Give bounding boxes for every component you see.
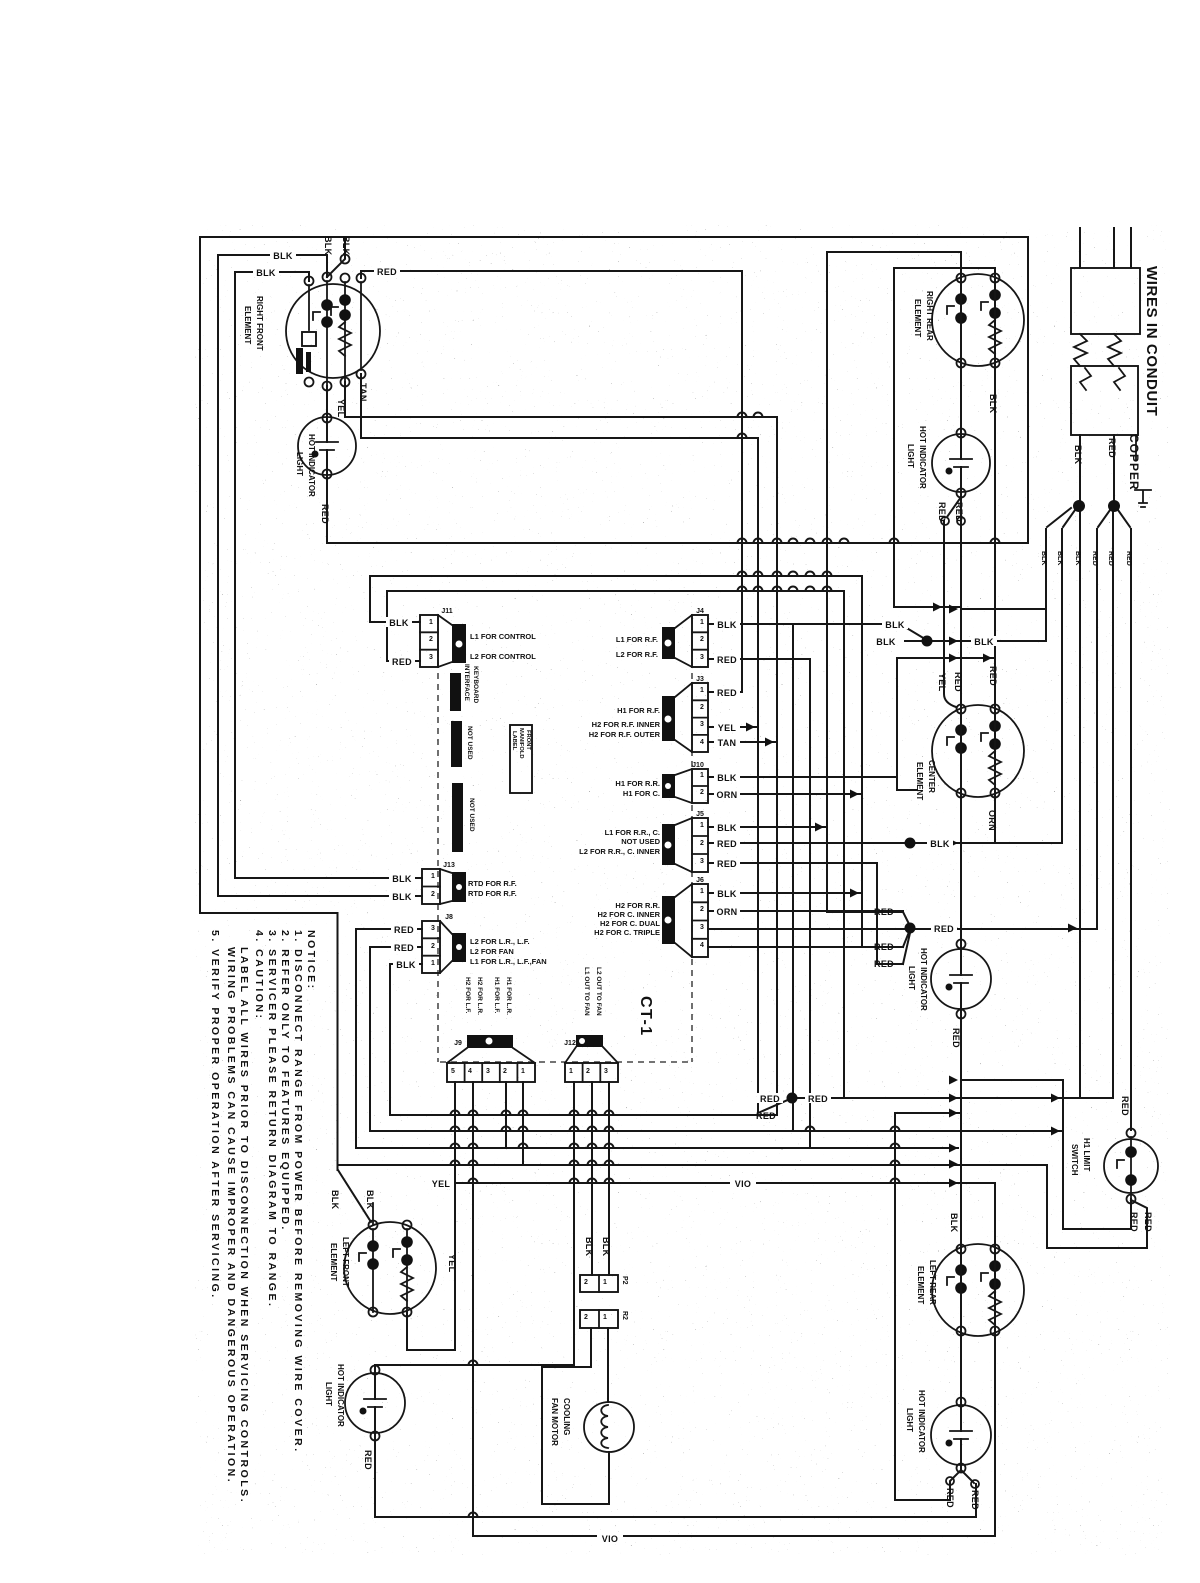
svg-text:RIGHT REAR: RIGHT REAR bbox=[925, 291, 934, 341]
svg-text:YEL: YEL bbox=[432, 1179, 451, 1189]
svg-text:KEYBOARD: KEYBOARD bbox=[472, 666, 479, 704]
svg-text:2: 2 bbox=[700, 789, 704, 796]
svg-text:H2 FOR C. INNER: H2 FOR C. INNER bbox=[597, 910, 660, 919]
svg-text:YEL: YEL bbox=[447, 1254, 457, 1273]
svg-text:BLK: BLK bbox=[601, 1237, 611, 1257]
svg-text:BLK: BLK bbox=[256, 268, 276, 278]
svg-text:RED: RED bbox=[392, 657, 412, 667]
svg-text:H2 FOR L.F.: H2 FOR L.F. bbox=[464, 977, 471, 1014]
svg-text:3: 3 bbox=[700, 654, 704, 661]
svg-text:RED: RED bbox=[363, 1450, 373, 1470]
svg-text:BLK: BLK bbox=[341, 236, 351, 256]
svg-text:RED: RED bbox=[1125, 551, 1132, 566]
svg-text:H2 FOR L.R.: H2 FOR L.R. bbox=[476, 977, 483, 1015]
svg-text:L1 FOR R.R., C.: L1 FOR R.R., C. bbox=[605, 828, 660, 837]
svg-text:ELEMENT: ELEMENT bbox=[915, 762, 924, 800]
svg-text:RED: RED bbox=[717, 859, 737, 869]
svg-text:SWITCH: SWITCH bbox=[1070, 1144, 1079, 1176]
svg-text:RED: RED bbox=[945, 1488, 955, 1508]
svg-text:YEL: YEL bbox=[937, 673, 947, 692]
svg-text:2: 2 bbox=[431, 891, 435, 898]
svg-text:2: 2 bbox=[700, 636, 704, 643]
svg-text:BLK: BLK bbox=[396, 960, 416, 970]
svg-text:ORN: ORN bbox=[987, 810, 997, 831]
svg-text:1: 1 bbox=[603, 1279, 607, 1286]
svg-text:RED: RED bbox=[954, 502, 964, 522]
svg-text:L1 FOR CONTROL: L1 FOR CONTROL bbox=[470, 632, 536, 641]
svg-text:RED: RED bbox=[988, 666, 998, 686]
svg-text:L2 FOR CONTROL: L2 FOR CONTROL bbox=[470, 652, 536, 661]
svg-text:RED: RED bbox=[874, 959, 894, 969]
svg-text:1: 1 bbox=[431, 873, 435, 880]
svg-text:LIGHT: LIGHT bbox=[907, 966, 916, 990]
svg-text:L2 FOR R.F.: L2 FOR R.F. bbox=[616, 650, 658, 659]
svg-text:BLK: BLK bbox=[1074, 551, 1081, 565]
svg-text:BLK: BLK bbox=[330, 1190, 340, 1210]
svg-text:L2 FOR FAN: L2 FOR FAN bbox=[470, 947, 514, 956]
svg-text:BLK: BLK bbox=[1040, 551, 1047, 565]
svg-text:RED: RED bbox=[394, 943, 414, 953]
svg-text:3. SERVICER PLEASE RETURN DIAG: 3. SERVICER PLEASE RETURN DIAGRAM TO RAN… bbox=[266, 930, 278, 1308]
svg-text:RED: RED bbox=[717, 688, 737, 698]
svg-text:2: 2 bbox=[586, 1068, 590, 1075]
svg-text:L2 FOR L.R., L.F.: L2 FOR L.R., L.F. bbox=[470, 937, 530, 946]
svg-text:RED: RED bbox=[756, 1111, 776, 1121]
svg-text:H1 FOR L.F.: H1 FOR L.F. bbox=[493, 977, 500, 1014]
svg-text:H1 LIMIT: H1 LIMIT bbox=[1082, 1138, 1091, 1171]
svg-text:BLK: BLK bbox=[717, 889, 737, 899]
svg-text:YEL: YEL bbox=[336, 399, 346, 418]
svg-text:RED: RED bbox=[717, 839, 737, 849]
svg-text:HOT INDICATOR: HOT INDICATOR bbox=[919, 948, 928, 1011]
svg-text:2: 2 bbox=[584, 1314, 588, 1321]
svg-text:RED: RED bbox=[1143, 1212, 1153, 1232]
svg-text:HOT INDICATOR: HOT INDICATOR bbox=[336, 1364, 345, 1427]
svg-text:3: 3 bbox=[604, 1068, 608, 1075]
svg-text:RTD FOR R.F.: RTD FOR R.F. bbox=[468, 889, 517, 898]
svg-text:FRONT: FRONT bbox=[525, 730, 531, 750]
svg-text:1: 1 bbox=[569, 1068, 573, 1075]
svg-text:RED: RED bbox=[970, 1490, 980, 1510]
svg-text:ELEMENT: ELEMENT bbox=[913, 299, 922, 337]
svg-text:H1 FOR R.R.: H1 FOR R.R. bbox=[615, 779, 660, 788]
svg-text:2: 2 bbox=[700, 906, 704, 913]
svg-text:VIO: VIO bbox=[602, 1534, 618, 1544]
svg-text:BLK: BLK bbox=[988, 394, 998, 414]
svg-text:RED: RED bbox=[1107, 551, 1114, 566]
svg-text:4. CAUTION:: 4. CAUTION: bbox=[253, 930, 265, 1021]
svg-text:TAN: TAN bbox=[358, 383, 368, 402]
svg-text:3: 3 bbox=[486, 1068, 490, 1075]
svg-text:WIRES IN CONDUIT: WIRES IN CONDUIT bbox=[1143, 266, 1160, 416]
svg-text:RED: RED bbox=[953, 672, 963, 692]
svg-text:L2 OUT TO FAN: L2 OUT TO FAN bbox=[595, 967, 602, 1016]
svg-text:BLK: BLK bbox=[584, 1237, 594, 1257]
svg-text:RED: RED bbox=[1091, 551, 1098, 566]
svg-text:RED: RED bbox=[1107, 438, 1117, 458]
svg-text:LIGHT: LIGHT bbox=[906, 444, 915, 468]
svg-text:H2 FOR R.F. INNER: H2 FOR R.F. INNER bbox=[592, 720, 661, 729]
svg-text:BLK: BLK bbox=[392, 874, 412, 884]
svg-text:BLK: BLK bbox=[949, 1213, 959, 1233]
svg-text:5: 5 bbox=[451, 1068, 455, 1075]
svg-text:J5: J5 bbox=[696, 811, 704, 818]
svg-text:RED: RED bbox=[874, 942, 894, 952]
svg-text:1: 1 bbox=[700, 687, 704, 694]
svg-text:3: 3 bbox=[700, 721, 704, 728]
svg-text:RED: RED bbox=[717, 655, 737, 665]
svg-text:LIGHT: LIGHT bbox=[295, 452, 304, 476]
svg-text:J3: J3 bbox=[696, 676, 704, 683]
svg-text:RED: RED bbox=[377, 267, 397, 277]
svg-text:RED: RED bbox=[874, 907, 894, 917]
svg-text:FAN MOTOR: FAN MOTOR bbox=[550, 1398, 559, 1446]
svg-text:1: 1 bbox=[700, 619, 704, 626]
svg-text:1: 1 bbox=[700, 888, 704, 895]
svg-text:RIGHT FRONT: RIGHT FRONT bbox=[255, 296, 264, 351]
svg-text:BLK: BLK bbox=[885, 620, 905, 630]
svg-text:NOT USED: NOT USED bbox=[621, 837, 660, 846]
svg-text:RED: RED bbox=[937, 502, 947, 522]
svg-text:BLK: BLK bbox=[1073, 445, 1083, 465]
svg-text:LIGHT: LIGHT bbox=[324, 1382, 333, 1406]
svg-text:COOLING: COOLING bbox=[562, 1398, 571, 1435]
svg-text:J12: J12 bbox=[564, 1040, 576, 1047]
svg-text:H1 FOR L.R.: H1 FOR L.R. bbox=[505, 977, 512, 1015]
svg-text:ORN: ORN bbox=[717, 907, 738, 917]
svg-text:BLK: BLK bbox=[392, 892, 412, 902]
svg-text:RED: RED bbox=[394, 925, 414, 935]
svg-text:H2 FOR R.F. OUTER: H2 FOR R.F. OUTER bbox=[589, 730, 661, 739]
svg-text:2: 2 bbox=[700, 840, 704, 847]
svg-text:BLK: BLK bbox=[717, 620, 737, 630]
svg-text:RED: RED bbox=[1120, 1096, 1130, 1116]
svg-text:2: 2 bbox=[431, 943, 435, 950]
svg-text:BLK: BLK bbox=[365, 1190, 375, 1210]
svg-text:RED: RED bbox=[934, 924, 954, 934]
svg-text:P2: P2 bbox=[621, 1276, 628, 1285]
svg-text:2: 2 bbox=[700, 704, 704, 711]
svg-text:L1 OUT TO FAN: L1 OUT TO FAN bbox=[583, 967, 590, 1016]
svg-text:HOT INDICATOR: HOT INDICATOR bbox=[307, 434, 316, 497]
svg-text:1: 1 bbox=[431, 960, 435, 967]
svg-text:BLK: BLK bbox=[1056, 551, 1063, 565]
svg-text:BLK: BLK bbox=[876, 637, 896, 647]
svg-text:BLK: BLK bbox=[389, 618, 409, 628]
svg-text:1: 1 bbox=[700, 822, 704, 829]
svg-text:4: 4 bbox=[700, 942, 704, 949]
svg-text:NOT USED: NOT USED bbox=[468, 798, 475, 832]
svg-text:BLK: BLK bbox=[930, 839, 950, 849]
svg-text:3: 3 bbox=[429, 654, 433, 661]
svg-text:WIRING PROBLEMS CAN CAUSE IMPR: WIRING PROBLEMS CAN CAUSE IMPROPER AND D… bbox=[225, 947, 237, 1484]
svg-text:TAN: TAN bbox=[718, 738, 737, 748]
svg-text:1: 1 bbox=[603, 1314, 607, 1321]
svg-text:LIGHT: LIGHT bbox=[905, 1408, 914, 1432]
svg-text:L2 FOR R.R., C. INNER: L2 FOR R.R., C. INNER bbox=[579, 847, 660, 856]
svg-text:CT-1: CT-1 bbox=[637, 996, 654, 1037]
svg-text:RED: RED bbox=[808, 1094, 828, 1104]
svg-text:3: 3 bbox=[431, 925, 435, 932]
svg-text:2: 2 bbox=[584, 1279, 588, 1286]
svg-text:MANIFOLD: MANIFOLD bbox=[518, 728, 524, 759]
svg-text:J4: J4 bbox=[696, 608, 704, 615]
svg-text:RED: RED bbox=[1129, 1212, 1139, 1232]
svg-text:LEFT REAR: LEFT REAR bbox=[928, 1260, 937, 1305]
svg-text:HOT INDICATOR: HOT INDICATOR bbox=[917, 1390, 926, 1453]
svg-text:INTERFACE: INTERFACE bbox=[463, 664, 470, 702]
svg-text:H2 FOR C. TRIPLE: H2 FOR C. TRIPLE bbox=[594, 928, 660, 937]
svg-text:J13: J13 bbox=[443, 862, 455, 869]
svg-text:4: 4 bbox=[700, 739, 704, 746]
svg-text:ORN: ORN bbox=[717, 790, 738, 800]
svg-text:ELEMENT: ELEMENT bbox=[916, 1266, 925, 1304]
svg-text:1: 1 bbox=[700, 772, 704, 779]
svg-text:H2 FOR R.R.: H2 FOR R.R. bbox=[615, 901, 660, 910]
svg-text:2: 2 bbox=[503, 1068, 507, 1075]
svg-text:BLK: BLK bbox=[974, 637, 994, 647]
svg-text:L1 FOR R.F.: L1 FOR R.F. bbox=[616, 635, 658, 644]
svg-text:HOT INDICATOR: HOT INDICATOR bbox=[918, 426, 927, 489]
svg-text:LABEL: LABEL bbox=[511, 731, 517, 751]
svg-text:2: 2 bbox=[429, 636, 433, 643]
svg-text:J8: J8 bbox=[445, 914, 453, 921]
svg-text:4: 4 bbox=[468, 1068, 472, 1075]
svg-text:J9: J9 bbox=[454, 1040, 462, 1047]
svg-text:1: 1 bbox=[429, 619, 433, 626]
svg-text:1. DISCONNECT RANGE FROM POWER: 1. DISCONNECT RANGE FROM POWER BEFORE RE… bbox=[292, 930, 304, 1454]
svg-text:J6: J6 bbox=[696, 877, 704, 884]
svg-text:ELEMENT: ELEMENT bbox=[329, 1243, 338, 1281]
svg-text:RED: RED bbox=[760, 1094, 780, 1104]
svg-text:3: 3 bbox=[700, 924, 704, 931]
svg-text:3: 3 bbox=[700, 858, 704, 865]
svg-text:L1 FOR L.R., L.F.,FAN: L1 FOR L.R., L.F.,FAN bbox=[470, 957, 547, 966]
svg-text:RED: RED bbox=[951, 1028, 961, 1048]
svg-text:VIO: VIO bbox=[735, 1179, 751, 1189]
svg-text:J11: J11 bbox=[441, 608, 452, 615]
svg-text:BLK: BLK bbox=[717, 773, 737, 783]
svg-text:1: 1 bbox=[521, 1068, 525, 1075]
svg-text:RED: RED bbox=[320, 504, 330, 524]
svg-text:BLK: BLK bbox=[717, 823, 737, 833]
svg-text:2. REFER ONLY TO FEATURES EQUI: 2. REFER ONLY TO FEATURES EQUIPPED. bbox=[279, 930, 291, 1232]
svg-text:H1 FOR C.: H1 FOR C. bbox=[623, 789, 660, 798]
svg-text:LABEL ALL WIRES PRIOR TO DISCO: LABEL ALL WIRES PRIOR TO DISCONNECTION W… bbox=[238, 947, 250, 1504]
svg-text:COPPER: COPPER bbox=[1127, 434, 1141, 491]
svg-text:NOT USED: NOT USED bbox=[466, 726, 473, 760]
svg-text:BLK: BLK bbox=[323, 236, 333, 256]
svg-text:NOTICE:: NOTICE: bbox=[305, 930, 317, 991]
svg-text:H1 FOR R.F.: H1 FOR R.F. bbox=[617, 706, 660, 715]
svg-text:H2 FOR C. DUAL: H2 FOR C. DUAL bbox=[600, 919, 660, 928]
svg-text:BLK: BLK bbox=[273, 251, 293, 261]
svg-text:LEFT FRONT: LEFT FRONT bbox=[341, 1237, 350, 1287]
svg-text:J10: J10 bbox=[692, 762, 704, 769]
svg-text:5. VERIFY PROPER OPERATION AFT: 5. VERIFY PROPER OPERATION AFTER SERVICI… bbox=[209, 930, 221, 1300]
svg-text:RTD FOR R.F.: RTD FOR R.F. bbox=[468, 879, 517, 888]
svg-text:R2: R2 bbox=[621, 1311, 628, 1320]
svg-text:ELEMENT: ELEMENT bbox=[243, 306, 252, 344]
svg-text:YEL: YEL bbox=[718, 723, 737, 733]
